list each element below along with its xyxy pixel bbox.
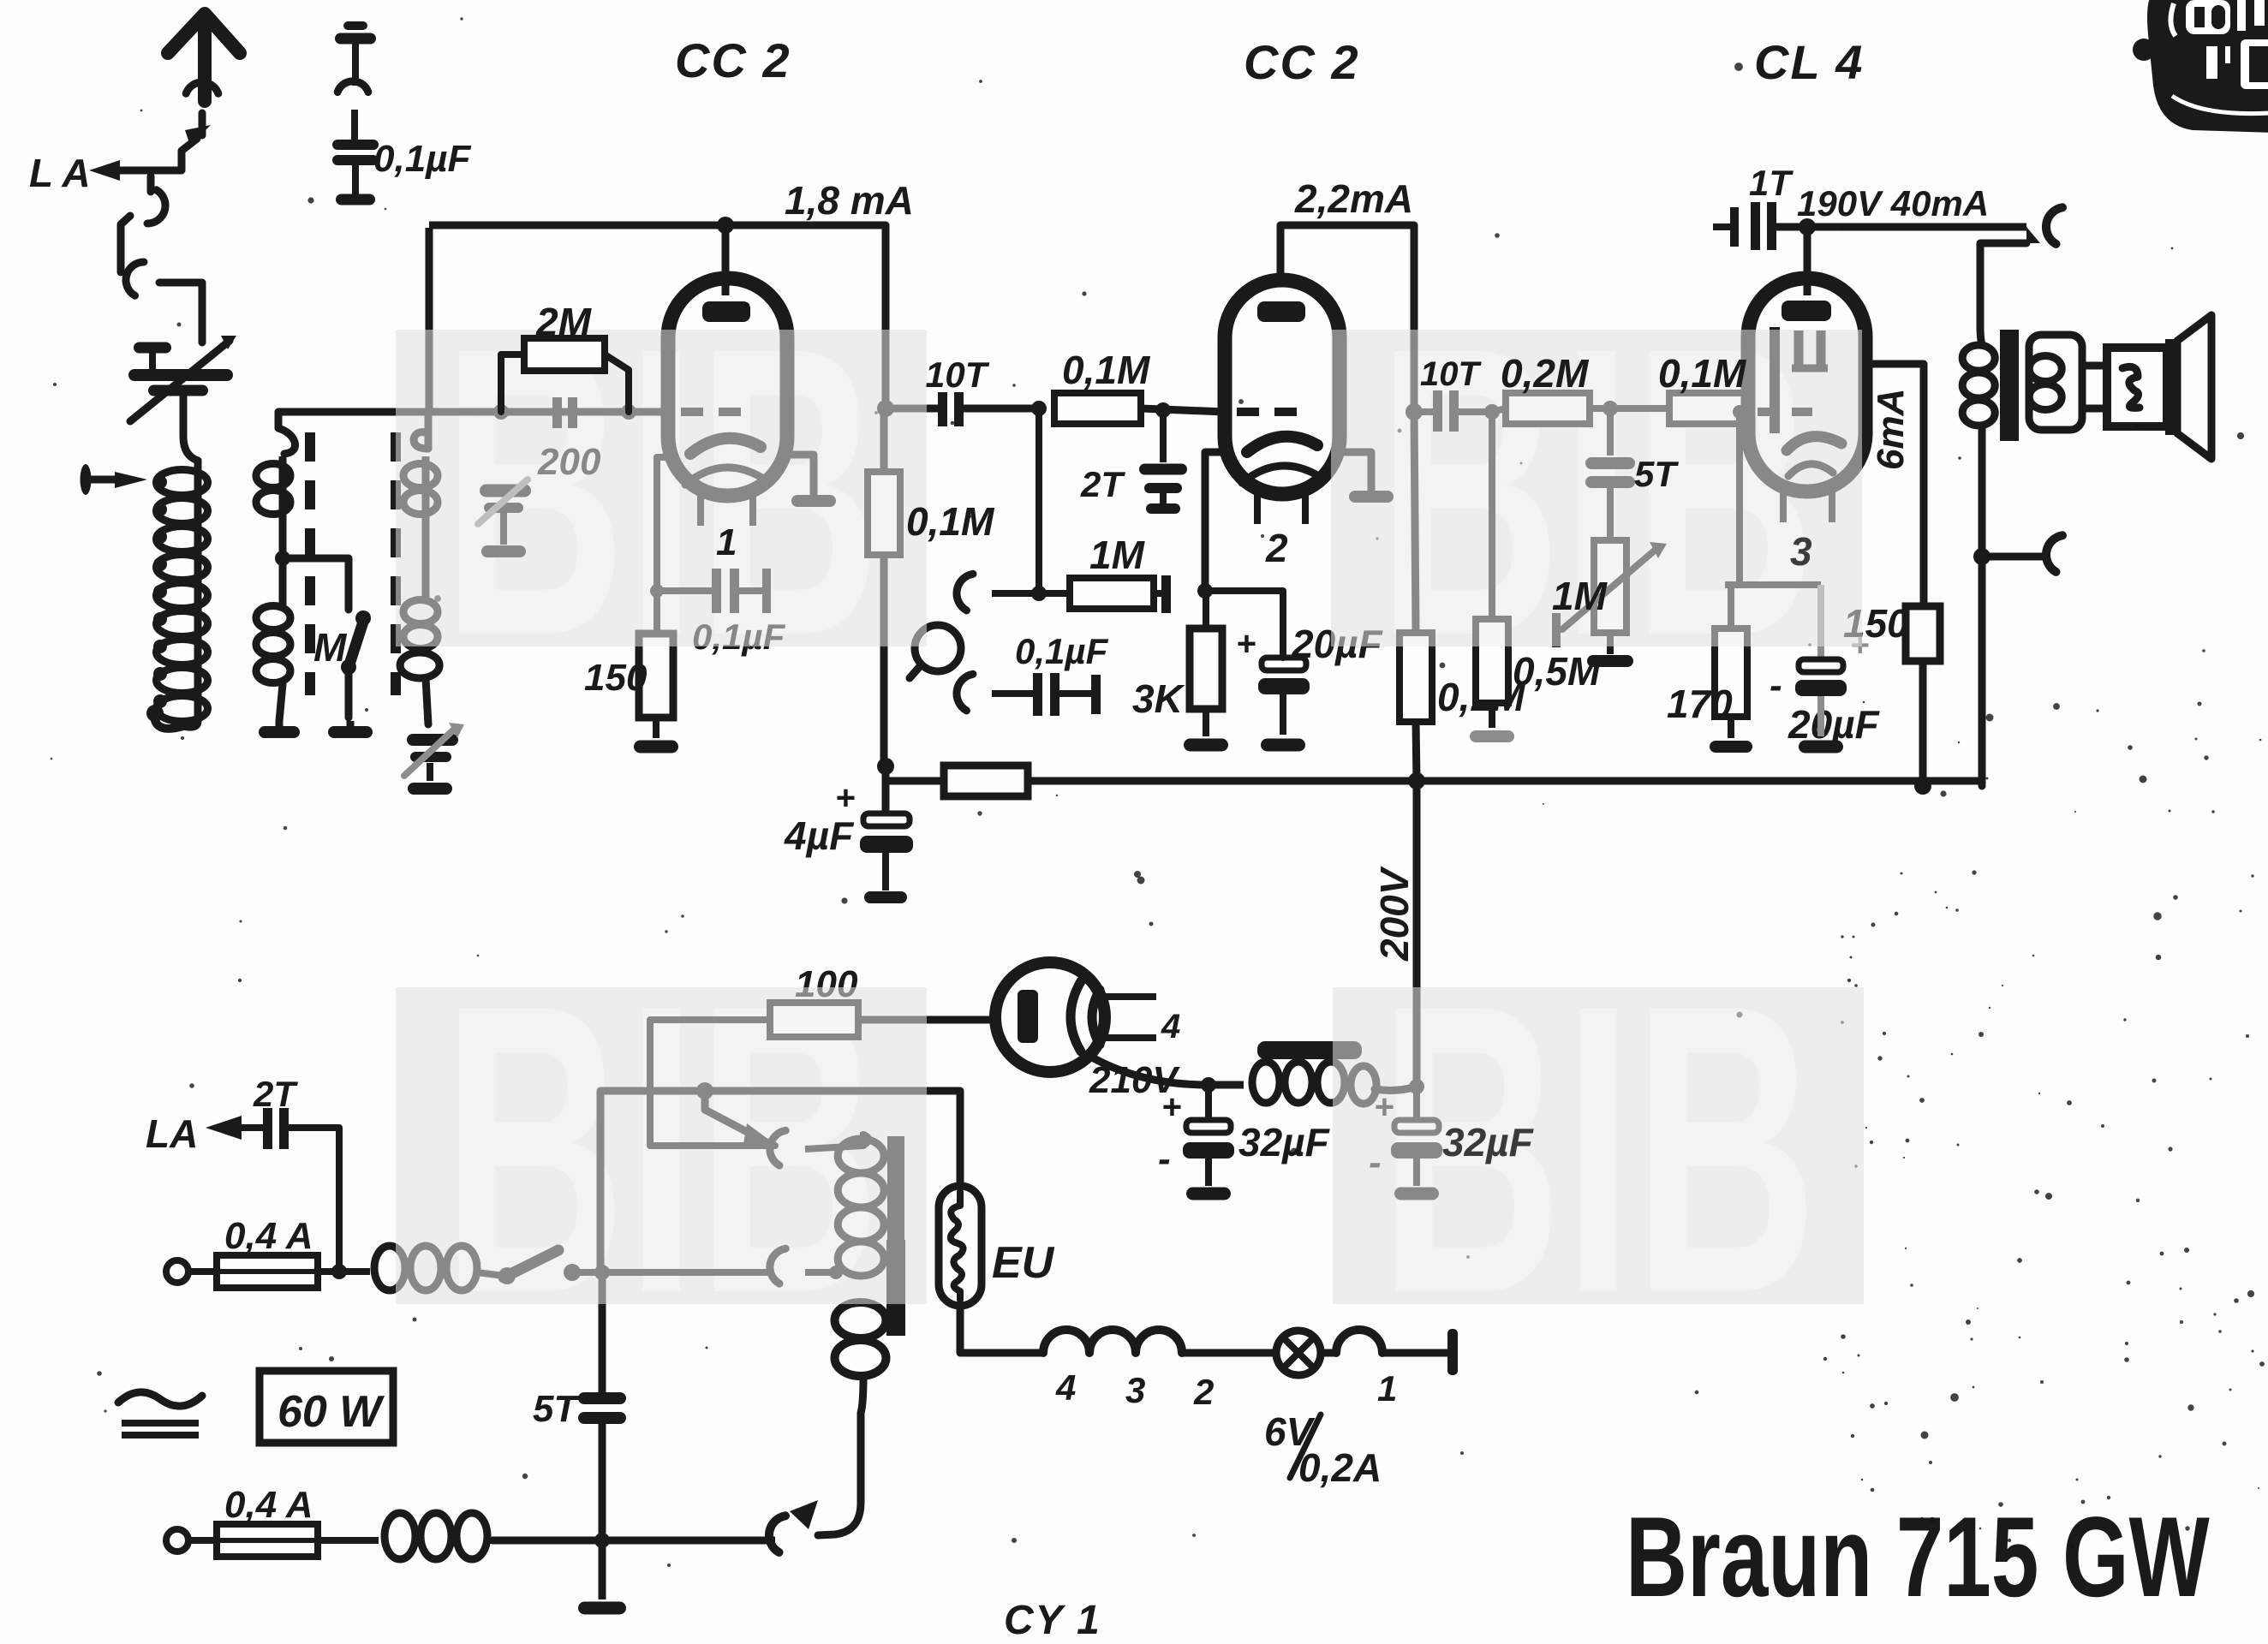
tube 2 grid dashes xyxy=(1237,408,1310,416)
svg-text:5T: 5T xyxy=(1634,454,1679,494)
wire antenna down to switch contact xyxy=(199,113,206,135)
mains coil 2 xyxy=(318,1537,379,1544)
pot arrow xyxy=(1562,549,1656,629)
heater chain terminal xyxy=(1447,1329,1458,1375)
speaker coil squiggle xyxy=(2122,366,2140,408)
filter choke core xyxy=(1257,1041,1362,1059)
switch contact arrow xyxy=(185,125,211,146)
svg-text:150: 150 xyxy=(584,657,648,699)
wire 150 to AVC xyxy=(1919,661,1927,786)
rail 190V xyxy=(1776,223,2026,231)
antenna symbol xyxy=(168,14,240,101)
triangle connector mark xyxy=(2026,227,2040,243)
earth terminal bar xyxy=(81,464,92,495)
svg-text:+: + xyxy=(1161,1088,1181,1126)
filter choke winding xyxy=(1209,1081,1244,1089)
junction AVC 200V xyxy=(1408,772,1425,789)
junction grid-2M left xyxy=(493,404,509,420)
svg-text:L A: L A xyxy=(29,151,91,195)
junction anode tube1 xyxy=(717,217,734,234)
watermark tint overlay xyxy=(396,330,927,646)
output transformer core xyxy=(2000,330,2019,441)
connector hook 1M xyxy=(957,574,973,611)
resistor 0.1M coupling xyxy=(1054,393,1141,424)
svg-text:-: - xyxy=(1158,1138,1171,1180)
wire trimmer to ground xyxy=(427,763,433,781)
heater chain humps xyxy=(1043,1330,1182,1353)
wire EU bottom xyxy=(960,1306,1043,1353)
tube 1 grid dashes xyxy=(681,408,755,416)
svg-text:Braun 715 GW: Braun 715 GW xyxy=(1626,1493,2210,1620)
ground 20uF tube2 xyxy=(1261,739,1305,752)
capacitor 20uF tube3 plates xyxy=(1799,659,1843,672)
svg-text:5T: 5T xyxy=(533,1388,579,1430)
svg-text:0,4 A: 0,4 A xyxy=(224,1215,313,1257)
ground bottom xyxy=(578,1602,626,1615)
junction anode tube3 xyxy=(1799,218,1816,235)
trimmer arrow xyxy=(478,479,528,524)
svg-text:0,4 A: 0,4 A xyxy=(224,1484,313,1526)
capacitor 32uF first xyxy=(1205,1085,1212,1120)
resistor 150 tube3 xyxy=(1906,606,1940,661)
ground tube2 right xyxy=(1349,491,1394,503)
resistor 0.1M tube2 plate xyxy=(1400,633,1432,722)
wire to 0.1uF xyxy=(657,587,712,594)
svg-text:2T: 2T xyxy=(253,1074,298,1114)
tap selector triangle xyxy=(743,1123,773,1144)
antenna coil L1 xyxy=(157,470,208,496)
wire cathode to 150 xyxy=(654,591,660,634)
connector arc 2 xyxy=(147,190,165,223)
capacitor 2T plates xyxy=(1160,410,1167,462)
ground 170 xyxy=(1710,741,1752,753)
AC tilde symbol xyxy=(118,1392,202,1406)
svg-text:10T: 10T xyxy=(925,354,990,395)
power transformer winding gray xyxy=(838,1139,884,1173)
resistor 2M xyxy=(524,338,605,371)
svg-text:32µF: 32µF xyxy=(1238,1120,1331,1164)
wire 170 ground xyxy=(1728,717,1734,738)
IF core dashes right xyxy=(391,432,401,695)
svg-text:0,1µF: 0,1µF xyxy=(373,138,472,180)
AVC line xyxy=(886,777,1982,785)
junction cathode tube3 xyxy=(1733,405,1746,419)
junction 0.1uF xyxy=(650,584,664,598)
wire 150 to ground xyxy=(653,718,660,738)
mains line 2 xyxy=(492,1537,775,1545)
wire 5T to bottom line xyxy=(599,1424,606,1540)
tube 1 anode plate xyxy=(702,301,750,322)
svg-text:1: 1 xyxy=(1377,1368,1397,1409)
IF primary upper winding xyxy=(256,464,290,488)
svg-text:0,1M: 0,1M xyxy=(906,499,995,544)
wire pot ground xyxy=(1607,633,1614,654)
capacitor 0.1uF tube1 xyxy=(712,569,721,613)
svg-text:EU: EU xyxy=(992,1238,1055,1288)
power transformer winding black xyxy=(835,1302,886,1338)
wire 5T to pot xyxy=(1607,488,1614,540)
potentiometer 1M volume xyxy=(1594,540,1626,633)
resistor AVC xyxy=(944,765,1028,796)
svg-text:2: 2 xyxy=(1265,526,1288,570)
capacitor 10T second plates xyxy=(1433,390,1442,432)
tube 1 cathode arc xyxy=(690,438,761,454)
svg-text:0,1M: 0,1M xyxy=(1062,348,1151,392)
rectifier tube CY1 xyxy=(995,962,1105,1072)
svg-text:4µF: 4µF xyxy=(784,813,855,858)
variable capacitor plate 1 xyxy=(128,369,233,381)
IF primary top hook xyxy=(278,412,295,454)
terminal bar 0.1uF xyxy=(762,569,771,613)
IF secondary lower winding gray xyxy=(403,600,438,624)
trimmer T-bar of tuning capacitor xyxy=(134,342,171,354)
svg-text:1M: 1M xyxy=(1089,533,1146,577)
wire 100 left xyxy=(650,1020,775,1146)
svg-text:1,8 mA: 1,8 mA xyxy=(785,178,914,223)
tube2 cathode right wire xyxy=(1340,452,1371,490)
svg-text:0,1µF: 0,1µF xyxy=(1015,631,1109,671)
junction 5T xyxy=(1603,401,1618,416)
wire 2M right lead xyxy=(605,354,629,412)
ground 32uF first xyxy=(1186,1188,1231,1200)
connector arc rail end xyxy=(2046,207,2062,244)
svg-text:10T: 10T xyxy=(1420,355,1482,393)
svg-text:LA: LA xyxy=(146,1111,198,1156)
terminal bar 1M xyxy=(1161,575,1171,613)
tube 1 base leads xyxy=(697,496,704,526)
svg-text:2T: 2T xyxy=(1080,464,1125,504)
connector arc lower xyxy=(2046,535,2062,572)
resistor 0.5M xyxy=(1476,619,1508,703)
wire cathode junction horiz xyxy=(1725,581,1821,588)
wire xyxy=(352,165,359,195)
antenna cap terminal xyxy=(343,21,367,30)
tube 3 inner bars xyxy=(1794,331,1804,365)
ground 3K xyxy=(1184,739,1228,752)
wire junction to arc xyxy=(1982,553,2049,561)
tube1 grid-cap wire left xyxy=(657,457,671,589)
wire 0.1M to 200V line xyxy=(1416,722,1417,781)
wire 4uF ground xyxy=(882,853,889,890)
wire S-bend to connector 3 xyxy=(121,216,130,272)
capacitor 200 plates xyxy=(557,399,558,427)
trimmer capacitor at 200 node xyxy=(480,485,531,497)
junction 1M grid xyxy=(1031,401,1047,416)
resistor 150 tube1 xyxy=(639,634,673,718)
wire hook to 0.1uF xyxy=(992,690,1033,697)
speaker voice coil box xyxy=(2107,348,2167,426)
trimmer arrow IF xyxy=(404,728,456,776)
wire to LA line xyxy=(115,139,197,170)
junction 1M left xyxy=(1031,586,1047,601)
power transformer top tap xyxy=(770,1130,785,1165)
resistor 0.1M third xyxy=(1669,393,1746,424)
fuse 0.4A first xyxy=(188,1268,217,1275)
tube1 cathode wire right xyxy=(787,455,814,494)
ground IF primary xyxy=(259,726,300,738)
junction cathode tube2 xyxy=(1197,583,1213,599)
phono pickup symbol xyxy=(915,625,961,671)
connector arc 3 xyxy=(126,262,144,295)
stamp top right corner xyxy=(2133,0,2268,133)
connector hook phono xyxy=(957,674,973,711)
tube 3 heater arc xyxy=(1788,464,1833,476)
wire rail to transformer xyxy=(1980,243,2026,344)
vertical wire top rail left end xyxy=(426,228,433,412)
heater hump last xyxy=(1322,1349,1336,1357)
svg-text:190V 40mA: 190V 40mA xyxy=(1797,183,1989,223)
box 60W xyxy=(260,1371,393,1443)
tube2 cathode left wire xyxy=(1205,452,1228,589)
tube 3 cathode arc xyxy=(1787,437,1841,450)
CY1 cathode arcs xyxy=(1071,981,1081,1051)
tube 3 envelope xyxy=(1748,278,1865,491)
wire 100 right to CY1 xyxy=(858,1016,995,1024)
ground 4uF xyxy=(864,891,907,903)
svg-text:CL 4: CL 4 xyxy=(1754,35,1864,89)
wire to ground bottom xyxy=(599,1540,606,1599)
ground 2T xyxy=(1146,503,1180,514)
ground trimmer 200 xyxy=(481,545,526,557)
wire 0.1uF right xyxy=(739,587,764,594)
wire connector3 to tuning cap xyxy=(159,283,202,342)
ground M switch xyxy=(347,721,355,730)
fuse 0.4A second xyxy=(188,1537,217,1544)
svg-text:2,2mA: 2,2mA xyxy=(1294,176,1413,221)
IF secondary upper winding xyxy=(403,464,438,488)
IF secondary bottom loop black xyxy=(400,652,439,678)
IF primary lower winding xyxy=(256,606,290,630)
wire tap to M switch xyxy=(283,558,349,610)
capacitor 0.1uF phono xyxy=(1033,673,1042,716)
svg-text:M: M xyxy=(313,625,348,670)
wire grid line xyxy=(403,408,671,416)
ground 20uF tube3 xyxy=(1799,741,1843,753)
output transformer primary xyxy=(1962,345,1995,371)
wire hook to 1M xyxy=(992,590,1039,597)
connector arc tap middle xyxy=(770,1248,785,1284)
tube 3 grid dashes xyxy=(1758,408,1824,416)
resistor 0.1M tube1 plate xyxy=(868,472,900,555)
connector arc antenna cap xyxy=(337,81,368,92)
svg-text:6mA: 6mA xyxy=(1870,389,1912,470)
capacitor 5T bottom xyxy=(578,1392,626,1404)
switch blade mains xyxy=(504,1250,558,1278)
junction IF primary tap xyxy=(275,551,290,566)
svg-text:CC 2: CC 2 xyxy=(1244,35,1360,89)
wire M switch down xyxy=(345,667,353,718)
tube 2 envelope xyxy=(1225,280,1340,494)
ground IF trimmer xyxy=(408,783,452,795)
junction transformer bottom xyxy=(1973,548,1990,565)
svg-text:170: 170 xyxy=(1667,682,1733,726)
ground antenna cap xyxy=(336,194,375,205)
transformer bottom lead xyxy=(818,1377,863,1535)
svg-text:4: 4 xyxy=(1055,1367,1076,1408)
wire xyxy=(351,110,358,140)
resistor 170 xyxy=(1715,628,1747,717)
EU tube envelope xyxy=(939,1186,982,1306)
junction 32uF second xyxy=(1409,1079,1424,1094)
svg-text:2: 2 xyxy=(1193,1372,1214,1412)
junction 150 AVC xyxy=(1914,777,1931,795)
wire 200V line xyxy=(1413,781,1421,985)
junction bottom line xyxy=(594,1533,610,1548)
tube 2 base leads xyxy=(1254,494,1261,524)
wire 2T bottom xyxy=(289,1128,339,1272)
capacitor 5T plates xyxy=(1607,408,1614,456)
EU filament zigzag xyxy=(951,1192,964,1300)
wire 0.5M drop xyxy=(1489,412,1495,619)
svg-text:32µF: 32µF xyxy=(1442,1120,1535,1164)
variable capacitor arrow xyxy=(130,341,230,421)
svg-text:3: 3 xyxy=(1125,1370,1145,1410)
svg-text:1: 1 xyxy=(716,521,737,563)
svg-text:3: 3 xyxy=(1790,529,1812,574)
junction line y1274 corner xyxy=(600,1087,960,1095)
junction 32uF first xyxy=(1201,1077,1216,1093)
svg-text:1T: 1T xyxy=(1749,163,1794,203)
corner AVC right xyxy=(1979,781,1986,786)
tap selector diagonal xyxy=(705,1091,754,1135)
wire 20uF ground xyxy=(1280,694,1286,735)
ground 150 xyxy=(634,741,678,753)
svg-text:2M: 2M xyxy=(535,300,593,344)
svg-text:0,5M: 0,5M xyxy=(1513,649,1602,694)
terminal bar phono cap xyxy=(1091,675,1101,714)
variable capacitor plate 2 xyxy=(148,385,208,396)
wire plate tube2 down xyxy=(1411,225,1418,412)
arrow LA bottom xyxy=(206,1116,242,1140)
resistor 0.2M xyxy=(1506,393,1590,424)
ground tube1 right xyxy=(791,495,836,507)
speaker cone xyxy=(2165,339,2177,435)
wire 1274 to 5T xyxy=(599,1272,606,1392)
connector arc bottom tap xyxy=(769,1516,785,1552)
wire arc to winding xyxy=(805,1269,839,1276)
resistor 3K xyxy=(1190,628,1222,709)
wire grid line top xyxy=(278,408,403,416)
mains coil 1 xyxy=(318,1268,370,1275)
capacitor 1T plates xyxy=(1713,223,1730,230)
top rail 1.8mA xyxy=(429,222,886,229)
wire switch to tap xyxy=(572,1269,771,1276)
junction plate tube1 xyxy=(877,400,894,417)
svg-text:3K: 3K xyxy=(1132,676,1185,721)
wire transformer down to AVC xyxy=(1979,557,1986,786)
svg-text:+: + xyxy=(1236,625,1256,663)
CY1 heater pins xyxy=(1103,993,1156,1000)
watermark blocks (paper) xyxy=(396,261,1864,1379)
tube 1 envelope xyxy=(668,278,787,496)
wire rail corner down xyxy=(882,225,890,408)
svg-text:CC 2: CC 2 xyxy=(675,33,791,87)
anode lead tube1 xyxy=(722,225,730,295)
ground 1M pot xyxy=(1587,655,1633,667)
wire 3K ground xyxy=(1203,709,1209,736)
ground 32uF second xyxy=(1394,1188,1439,1200)
capacitor 32uF second xyxy=(1413,1087,1420,1120)
tube 2 cathode arc xyxy=(1247,437,1317,452)
svg-text:200V: 200V xyxy=(1372,866,1417,962)
junction switch vertical xyxy=(594,1265,610,1280)
mains terminal 2 xyxy=(166,1529,188,1552)
wire 1M drop xyxy=(1036,408,1042,593)
tube 3 base leads xyxy=(1780,491,1787,522)
resistor 100 xyxy=(770,1003,858,1037)
capacitor C 0.1uF plates xyxy=(332,140,379,150)
junction 2T xyxy=(1155,402,1171,418)
svg-text:4: 4 xyxy=(1161,1008,1180,1045)
wire to 20uF xyxy=(1205,591,1283,658)
wire 0.5M ground xyxy=(1489,703,1495,728)
wire 2T ground xyxy=(1160,493,1167,503)
svg-text:CY 1: CY 1 xyxy=(1004,1598,1101,1643)
ground 0.5M xyxy=(1470,730,1514,742)
trimmer capacitor IF plates xyxy=(407,734,458,746)
capacitor 20uF tube2 plates xyxy=(1262,658,1306,670)
junction grid-2M right xyxy=(621,404,636,420)
tube 2 heater arc xyxy=(1242,466,1324,483)
wire 20uF2 lead xyxy=(1817,585,1824,659)
junction plate tube2 xyxy=(1406,403,1423,420)
capacitor 10T first plates xyxy=(938,392,947,426)
CY1 anode plate xyxy=(1018,990,1038,1043)
tube 3 anode plate xyxy=(1782,301,1831,321)
lamp symbol xyxy=(1276,1331,1321,1375)
top rail 2.2mA xyxy=(1280,225,1414,283)
power transformer core xyxy=(887,1136,904,1240)
junction 2T mains xyxy=(331,1264,347,1279)
wire 0.1uF to bar xyxy=(1059,690,1091,697)
wire 2M left lead xyxy=(501,354,524,412)
junction dot tap line xyxy=(696,1082,713,1099)
resistor 1M grid xyxy=(1070,578,1154,609)
wire CY1 cathode out xyxy=(1088,1055,1209,1085)
svg-text:0,2M: 0,2M xyxy=(1501,351,1590,396)
svg-text:60 W: 60 W xyxy=(278,1387,385,1437)
wire LA corner to connector xyxy=(147,176,155,192)
tube 1 heater arc xyxy=(685,468,767,485)
arrow LA xyxy=(89,160,120,181)
earth arrow to coil xyxy=(115,472,147,488)
IF core dashes left xyxy=(305,432,315,695)
output transformer secondary xyxy=(2029,356,2062,382)
svg-text:0,1M: 0,1M xyxy=(1658,351,1747,396)
junction EU top xyxy=(957,1091,964,1189)
svg-text:0,2A: 0,2A xyxy=(1298,1445,1382,1490)
tube 3 screen bar xyxy=(1770,327,1780,433)
IF secondary top hook xyxy=(414,432,428,449)
tube 2 anode plate xyxy=(1257,301,1305,322)
connector arc antenna xyxy=(186,82,218,93)
wire 20uF2 ground xyxy=(1817,696,1824,736)
wire tube3 cathode left xyxy=(1736,412,1743,585)
wire tuning cap to antenna coil xyxy=(183,396,198,461)
capacitor 4uF plates xyxy=(863,813,910,826)
junction AVC line xyxy=(877,758,894,775)
anode lead tube3 xyxy=(1804,227,1811,295)
svg-text:1M: 1M xyxy=(1552,574,1608,618)
svg-text:+: + xyxy=(835,779,855,817)
svg-text:20µF: 20µF xyxy=(1788,702,1881,747)
wire trimmer stem xyxy=(500,513,507,545)
junction 0.5M xyxy=(1484,404,1500,420)
wire tube3 screen right xyxy=(1865,364,1924,606)
svg-text:-: - xyxy=(1770,664,1782,706)
switch M blade xyxy=(348,616,365,670)
capacitor 2T bottom plates xyxy=(263,1108,272,1149)
